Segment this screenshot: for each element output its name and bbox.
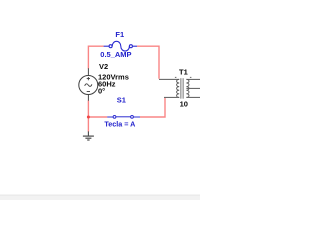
svg-text:S1: S1 <box>117 96 126 105</box>
voltage source V2 body <box>79 76 98 95</box>
minus sign <box>87 91 90 93</box>
svg-text:0°: 0° <box>98 86 105 95</box>
svg-text:T1: T1 <box>179 68 188 77</box>
junction dot <box>87 116 90 119</box>
transformer T1 secondary wire bottom <box>186 96 200 98</box>
svg-text:V2: V2 <box>99 62 108 71</box>
transformer phase dot secondary <box>190 76 192 79</box>
transformer T1 core <box>181 78 184 98</box>
status bar band bottom <box>0 194 200 197</box>
transformer T1 secondary wire center tap <box>186 87 200 89</box>
wire fuse to transformer top <box>137 46 159 79</box>
transformer T1 primary coil <box>177 79 180 97</box>
switch S1 <box>107 116 140 119</box>
svg-text:F1: F1 <box>115 30 124 39</box>
plus sign <box>87 77 90 80</box>
voltage source V2 pins <box>87 68 89 100</box>
svg-text:0.5_AMP: 0.5_AMP <box>100 50 131 59</box>
wire top from source to fuse <box>88 46 103 68</box>
wire source bottom to ground <box>87 100 89 131</box>
svg-text:Tecla = A: Tecla = A <box>104 119 135 128</box>
wire junction to switch <box>88 116 107 118</box>
svg-text:10: 10 <box>180 100 188 109</box>
transformer T1 primary wire bottom <box>164 96 179 98</box>
ground <box>83 131 94 140</box>
transformer T1 secondary coil <box>186 79 189 97</box>
fuse F1 <box>104 41 137 51</box>
wire switch to transformer bottom <box>140 98 165 117</box>
transformer phase dot primary <box>175 76 177 79</box>
sine symbol <box>85 84 92 87</box>
transformer T1 secondary wire top <box>186 78 200 80</box>
transformer T1 primary wire top <box>159 78 179 80</box>
